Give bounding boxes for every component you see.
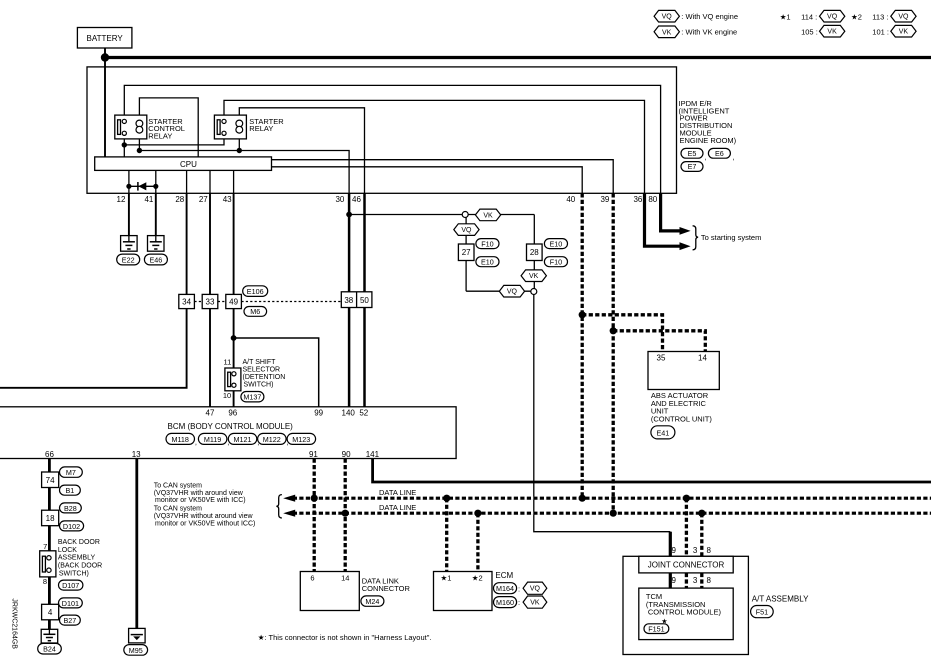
svg-text:9: 9 — [672, 576, 677, 585]
svg-text:: With VK engine: : With VK engine — [681, 28, 737, 37]
svg-text:4: 4 — [48, 608, 53, 617]
svg-text:ASSEMBLY: ASSEMBLY — [58, 555, 96, 562]
svg-text:monitor or VK50VE with ICC): monitor or VK50VE with ICC) — [155, 497, 246, 504]
svg-text:113 :: 113 : — [872, 13, 888, 22]
svg-text:(BACK DOOR: (BACK DOOR — [58, 563, 102, 570]
svg-text:CONTROL MODULE): CONTROL MODULE) — [648, 608, 722, 617]
svg-text:VQ: VQ — [507, 289, 518, 296]
svg-text:91: 91 — [309, 450, 318, 459]
svg-text:7: 7 — [43, 542, 47, 551]
svg-text:DATA LINE: DATA LINE — [379, 503, 416, 512]
svg-text:JRKWC2164GB: JRKWC2164GB — [11, 598, 18, 649]
svg-text:E10: E10 — [481, 258, 494, 267]
svg-text:12: 12 — [117, 195, 126, 204]
svg-text::: : — [518, 584, 520, 593]
svg-text:E6: E6 — [715, 149, 724, 158]
svg-text:RELAY: RELAY — [148, 131, 172, 140]
svg-text:(DETENTION: (DETENTION — [243, 374, 286, 381]
svg-text:SWITCH): SWITCH) — [59, 570, 89, 577]
svg-text:M137: M137 — [243, 393, 261, 402]
svg-text:E5: E5 — [688, 149, 697, 158]
svg-text:VK: VK — [483, 212, 493, 219]
svg-text:52: 52 — [359, 409, 368, 418]
svg-text:90: 90 — [342, 450, 351, 459]
svg-text:,: , — [732, 153, 734, 162]
svg-text:SWITCH): SWITCH) — [244, 382, 274, 389]
svg-text:39: 39 — [600, 195, 609, 204]
svg-text:E106: E106 — [247, 287, 264, 296]
svg-text:VQ: VQ — [461, 227, 472, 234]
svg-text:33: 33 — [206, 298, 215, 307]
svg-text:30: 30 — [335, 195, 344, 204]
svg-text:M95: M95 — [129, 646, 143, 655]
svg-text:E22: E22 — [122, 255, 135, 264]
svg-text:VQ: VQ — [827, 14, 838, 21]
svg-text:★2: ★2 — [851, 13, 862, 22]
svg-text:★2: ★2 — [472, 574, 483, 583]
svg-text:★: This connector is not shown: ★: This connector is not shown in "Harne… — [258, 633, 432, 642]
svg-text:28: 28 — [175, 195, 184, 204]
svg-text:★1: ★1 — [780, 13, 791, 22]
svg-text:6: 6 — [310, 574, 314, 583]
svg-text:3: 3 — [693, 546, 698, 555]
svg-text:LOCK: LOCK — [58, 547, 77, 554]
svg-text:ENGINE ROOM): ENGINE ROOM) — [680, 136, 737, 145]
svg-text:F51: F51 — [756, 608, 768, 617]
svg-text:28: 28 — [530, 248, 539, 257]
svg-text:3: 3 — [693, 576, 698, 585]
svg-text:D107: D107 — [62, 581, 79, 590]
svg-text:ECM: ECM — [495, 571, 513, 580]
svg-text:M24: M24 — [365, 597, 379, 606]
svg-text:VQ: VQ — [898, 14, 909, 21]
svg-text:E41: E41 — [657, 428, 670, 437]
svg-text:18: 18 — [46, 514, 55, 523]
svg-text:CONNECTOR: CONNECTOR — [362, 584, 411, 593]
svg-text:To CAN system: To CAN system — [154, 483, 202, 490]
svg-text:B1: B1 — [66, 486, 75, 495]
svg-text:96: 96 — [228, 409, 237, 418]
svg-text:43: 43 — [223, 195, 232, 204]
svg-text:35: 35 — [657, 354, 666, 363]
svg-text:M123: M123 — [292, 435, 310, 444]
svg-text:,: , — [195, 438, 197, 447]
svg-text:36: 36 — [633, 195, 642, 204]
svg-text:VQ: VQ — [662, 14, 673, 21]
svg-text:VK: VK — [530, 600, 540, 607]
svg-text:M121: M121 — [234, 435, 252, 444]
svg-text:8: 8 — [707, 576, 712, 585]
svg-text:27: 27 — [462, 248, 471, 257]
svg-text:E10: E10 — [550, 240, 563, 249]
svg-text:8: 8 — [707, 546, 712, 555]
svg-text:DATA LINE: DATA LINE — [379, 488, 416, 497]
svg-text:CPU: CPU — [180, 160, 197, 169]
svg-text:F10: F10 — [550, 258, 562, 267]
svg-text:140: 140 — [342, 409, 356, 418]
svg-text:141: 141 — [366, 450, 380, 459]
svg-text:114 :: 114 : — [801, 13, 817, 22]
svg-text:41: 41 — [144, 195, 153, 204]
svg-text:47: 47 — [206, 409, 215, 418]
svg-text:BCM (BODY CONTROL MODULE): BCM (BODY CONTROL MODULE) — [168, 422, 294, 431]
svg-text:F10: F10 — [481, 240, 493, 249]
svg-text:11: 11 — [224, 357, 232, 366]
svg-text:BACK DOOR: BACK DOOR — [58, 539, 100, 546]
svg-text:: With VQ engine: : With VQ engine — [681, 12, 738, 21]
svg-text:D101: D101 — [62, 599, 79, 608]
svg-text:14: 14 — [698, 354, 707, 363]
svg-text:27: 27 — [199, 195, 208, 204]
svg-text:(CONTROL UNIT): (CONTROL UNIT) — [651, 414, 712, 423]
svg-text:VQ: VQ — [530, 586, 541, 593]
svg-text:(VQ37VHR without around view: (VQ37VHR without around view — [154, 513, 254, 520]
svg-text:B27: B27 — [64, 616, 77, 625]
svg-text:M164: M164 — [496, 584, 514, 593]
svg-text:RELAY: RELAY — [249, 124, 273, 133]
svg-text:M122: M122 — [263, 435, 281, 444]
svg-text:10: 10 — [223, 391, 231, 400]
svg-text::: : — [518, 598, 520, 607]
svg-text:E7: E7 — [688, 162, 697, 171]
svg-text:101 :: 101 : — [872, 28, 889, 37]
svg-text:To CAN system: To CAN system — [154, 506, 202, 513]
svg-text:13: 13 — [132, 450, 141, 459]
svg-text:105 :: 105 : — [801, 28, 818, 37]
svg-text:40: 40 — [566, 195, 575, 204]
svg-text:80: 80 — [648, 195, 657, 204]
svg-text:M160: M160 — [496, 598, 514, 607]
svg-text:38: 38 — [344, 296, 353, 305]
svg-text:VK: VK — [529, 273, 539, 280]
svg-text:A/T ASSEMBLY: A/T ASSEMBLY — [752, 594, 809, 603]
svg-text:9: 9 — [672, 546, 677, 555]
svg-text:To starting system: To starting system — [701, 233, 761, 242]
svg-text:monitor or VK50VE without ICC): monitor or VK50VE without ICC) — [155, 520, 255, 527]
svg-text:99: 99 — [314, 409, 323, 418]
svg-text:14: 14 — [341, 574, 349, 583]
svg-text:34: 34 — [182, 298, 191, 307]
svg-text:VK: VK — [899, 29, 909, 36]
svg-text:,: , — [705, 153, 707, 162]
svg-text:66: 66 — [45, 450, 54, 459]
svg-text:M118: M118 — [171, 435, 188, 444]
svg-text:D102: D102 — [63, 522, 80, 531]
svg-text:VK: VK — [827, 29, 837, 36]
svg-text:F151: F151 — [648, 624, 664, 633]
svg-text:(VQ37VHR with around view: (VQ37VHR with around view — [154, 490, 244, 497]
svg-text:B24: B24 — [43, 645, 56, 654]
svg-text:M6: M6 — [250, 307, 260, 316]
svg-text:74: 74 — [46, 476, 55, 485]
svg-text:46: 46 — [352, 195, 361, 204]
svg-text:M119: M119 — [204, 435, 221, 444]
svg-text:8: 8 — [43, 577, 47, 586]
svg-text:M7: M7 — [66, 468, 76, 477]
svg-text:JOINT CONNECTOR: JOINT CONNECTOR — [648, 561, 725, 570]
svg-text:E46: E46 — [150, 255, 163, 264]
svg-text:49: 49 — [229, 298, 238, 307]
svg-text:BATTERY: BATTERY — [87, 34, 124, 43]
svg-text:VK: VK — [662, 29, 672, 36]
svg-text:★1: ★1 — [441, 574, 452, 583]
svg-text:SELECTOR: SELECTOR — [243, 367, 281, 374]
svg-text:50: 50 — [360, 296, 369, 305]
svg-text:A/T SHIFT: A/T SHIFT — [243, 359, 277, 366]
svg-text:B28: B28 — [64, 504, 77, 513]
